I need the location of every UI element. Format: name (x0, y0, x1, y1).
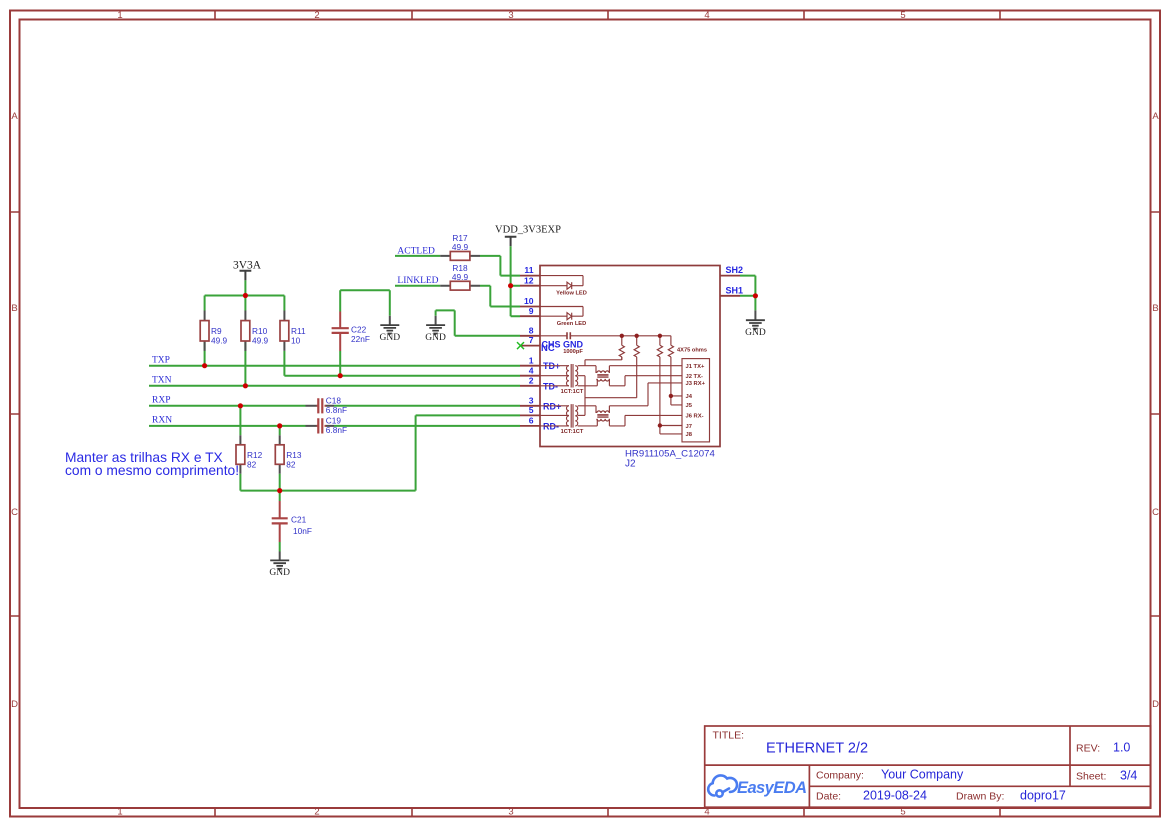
svg-text:C19: C19 (326, 416, 342, 426)
svg-text:J8: J8 (686, 432, 693, 438)
J2 internal wires unused pairs (660, 396, 682, 434)
resistor R17 (440, 233, 480, 260)
svg-text:J2 TX-: J2 TX- (686, 374, 703, 380)
svg-text:R9: R9 (211, 326, 222, 336)
svg-text:HR911105A_C12074: HR911105A_C12074 (625, 449, 715, 460)
J2 pin names (543, 361, 561, 431)
svg-text:2: 2 (529, 375, 534, 385)
svg-text:2: 2 (314, 10, 319, 21)
svg-text:6.8nF: 6.8nF (326, 425, 347, 435)
wire RXP (149, 405, 520, 407)
svg-text:VDD_3V3EXP: VDD_3V3EXP (495, 225, 561, 236)
J2 internal junction dots (620, 334, 674, 428)
svg-text:1: 1 (117, 807, 122, 818)
frame row ticks right (1151, 212, 1161, 616)
resistor R18 (440, 263, 480, 290)
power flag 3V3A (233, 260, 262, 281)
ground GND3 (C21) (269, 552, 290, 579)
capacitor C21 (272, 501, 312, 542)
J2 transformer T1 (540, 364, 578, 388)
svg-text:Yellow LED: Yellow LED (556, 291, 587, 297)
svg-text:Company:: Company: (816, 770, 864, 782)
svg-text:9: 9 (529, 306, 534, 316)
wire R12 legs (239, 406, 241, 491)
svg-text:10nF: 10nF (293, 526, 312, 536)
svg-text:REV:: REV: (1076, 743, 1100, 755)
annotation note text (65, 450, 239, 478)
svg-text:C21: C21 (291, 515, 307, 525)
svg-text:NC: NC (541, 343, 555, 354)
svg-text:4X75 ohms: 4X75 ohms (677, 347, 707, 353)
svg-text:82: 82 (247, 460, 257, 470)
svg-text:49.9: 49.9 (452, 272, 469, 282)
svg-text:5: 5 (529, 405, 534, 415)
svg-text:3: 3 (508, 10, 513, 21)
svg-text:1000pF: 1000pF (563, 349, 583, 355)
frame row letters right (1152, 111, 1159, 710)
ground GND2 (pin8) (425, 316, 446, 343)
frame column ticks bottom (215, 808, 1000, 817)
svg-text:GND: GND (380, 333, 401, 343)
J2 internal capacitor 1000pF (540, 332, 671, 339)
svg-text:com o mesmo comprimento!: com o mesmo comprimento! (65, 463, 239, 478)
svg-text:C: C (11, 507, 18, 518)
J2 termination resistor Rb (634, 336, 639, 398)
svg-text:1CT:1CT: 1CT:1CT (561, 389, 584, 395)
J2 choke L2 (597, 411, 610, 421)
wire VDD to pins 12 and 9 (511, 246, 520, 316)
svg-text:RXN: RXN (152, 416, 172, 426)
resistor R11 (280, 311, 306, 351)
J2 yellow LED (540, 276, 583, 290)
J2 pin numbers (524, 265, 534, 425)
svg-text:82: 82 (286, 460, 296, 470)
resistor R10 (241, 311, 269, 351)
svg-text:J2: J2 (625, 459, 636, 470)
svg-text:10: 10 (524, 296, 534, 306)
svg-text:8: 8 (529, 325, 534, 335)
svg-text:GND: GND (269, 568, 290, 578)
svg-text:7: 7 (529, 335, 534, 345)
svg-text:1: 1 (529, 355, 534, 365)
junction dots (202, 283, 758, 493)
svg-text:4: 4 (704, 10, 709, 21)
J2 internal wires RX side (578, 383, 682, 426)
resistor R12 (236, 435, 263, 474)
svg-text:49.9: 49.9 (252, 336, 269, 346)
J2 left pin stubs (520, 276, 540, 426)
svg-text:3: 3 (529, 395, 534, 405)
capacitor C18 (306, 396, 348, 416)
J2 jack pin labels (686, 364, 706, 438)
frame row ticks left (10, 212, 20, 616)
wire bottom rail (240, 490, 415, 492)
wire ACTLED (395, 255, 440, 257)
wire pin5 line (416, 415, 520, 490)
svg-text:49.9: 49.9 (211, 336, 228, 346)
svg-text:B: B (11, 303, 17, 314)
svg-text:ETHERNET 2/2: ETHERNET 2/2 (766, 741, 868, 757)
J2 choke L1 (597, 371, 610, 381)
svg-text:Green LED: Green LED (557, 321, 586, 327)
J2 pin names SH2 SH1 (726, 265, 744, 295)
wire C21 bottom (279, 542, 281, 552)
svg-text:R11: R11 (291, 326, 306, 336)
svg-text:5: 5 (900, 807, 905, 818)
svg-text:22nF: 22nF (351, 334, 370, 344)
svg-text:SH2: SH2 (726, 265, 744, 275)
J2 transformer T2 (540, 404, 578, 428)
svg-text:3: 3 (508, 807, 513, 818)
svg-text:J6 RX-: J6 RX- (686, 414, 704, 420)
svg-text:2019-08-24: 2019-08-24 (863, 789, 927, 803)
resistor R9 (200, 311, 227, 351)
wire R13 legs (279, 426, 281, 491)
wire pin4 line (284, 351, 520, 376)
svg-text:11: 11 (524, 265, 533, 275)
capacitor C19 (306, 416, 348, 436)
capacitor C22 (332, 312, 370, 352)
svg-text:J4: J4 (686, 394, 693, 400)
svg-text:R13: R13 (286, 450, 302, 460)
svg-text:EasyEDA: EasyEDA (737, 779, 807, 797)
svg-text:A: A (1152, 111, 1159, 122)
svg-text:LINKLED: LINKLED (397, 276, 438, 286)
svg-text:3V3A: 3V3A (233, 260, 262, 272)
wire SH2 SH1 to GND (740, 276, 755, 311)
svg-text:D: D (1152, 699, 1159, 710)
frame column ticks top (215, 11, 1000, 20)
J2 inner jack box (682, 359, 710, 442)
EasyEDA logo cloud (708, 775, 737, 796)
frame column numbers top (117, 10, 905, 21)
svg-text:GND: GND (425, 333, 446, 343)
title block lines (705, 726, 1151, 807)
svg-text:TITLE:: TITLE: (713, 730, 745, 742)
svg-text:J5: J5 (686, 403, 693, 409)
svg-text:12: 12 (524, 275, 534, 285)
svg-text:Drawn By:: Drawn By: (956, 791, 1004, 803)
svg-text:Sheet:: Sheet: (1076, 771, 1106, 783)
svg-text:RXP: RXP (152, 396, 170, 406)
svg-text:dopro17: dopro17 (1020, 789, 1066, 803)
J2 termination resistor Rc (657, 336, 662, 434)
wire GND2 to pin8 (436, 310, 520, 335)
ground GND1 (C22 loop) (380, 316, 401, 343)
no-connect X pin7 (517, 342, 524, 349)
svg-text:49.9: 49.9 (452, 242, 469, 252)
svg-text:R12: R12 (247, 450, 263, 460)
resistor R13 (275, 435, 302, 474)
wire TXN (149, 385, 520, 387)
svg-text:10: 10 (291, 336, 301, 346)
svg-text:1CT:1CT: 1CT:1CT (561, 429, 584, 435)
J2 termination resistor Ra (619, 336, 624, 360)
wire C22 top loop to GND (340, 290, 390, 316)
svg-text:J3 RX+: J3 RX+ (686, 381, 706, 387)
wire C22 bottom (339, 351, 341, 376)
svg-text:6.8nF: 6.8nF (326, 405, 347, 415)
wire R17 to pin11 (480, 256, 520, 276)
svg-text:4: 4 (529, 365, 534, 375)
svg-text:D: D (11, 699, 18, 710)
svg-text:6: 6 (529, 416, 534, 426)
svg-text:3/4: 3/4 (1120, 769, 1137, 783)
wire RXN (149, 425, 520, 427)
J2 green LED (540, 307, 583, 320)
svg-text:4: 4 (704, 807, 709, 818)
svg-text:TXP: TXP (152, 356, 170, 366)
svg-text:Your Company: Your Company (881, 768, 964, 782)
connector J2 body (540, 266, 720, 447)
svg-text:TXN: TXN (152, 376, 172, 386)
svg-text:1.0: 1.0 (1113, 741, 1130, 755)
svg-text:R10: R10 (252, 326, 268, 336)
wire LINKLED (395, 285, 440, 287)
svg-text:ACTLED: ACTLED (397, 246, 435, 256)
wire R9 legs (204, 341, 206, 366)
wire 3V3A rail (205, 280, 285, 310)
wire R18 to pin10 (480, 286, 520, 307)
wire TXP (149, 365, 520, 367)
svg-text:GND: GND (745, 328, 766, 338)
J2 right pin stubs SH2 SH1 (720, 276, 740, 296)
svg-text:1: 1 (117, 10, 122, 21)
ground GND4 (SH) (745, 310, 766, 338)
svg-text:C22: C22 (351, 325, 367, 335)
J2 termination resistor Rd (668, 336, 673, 405)
wire R10 legs (244, 341, 246, 386)
J2 internal wires TX side (578, 357, 682, 416)
svg-text:B: B (1152, 303, 1158, 314)
power flag VDD_3V3EXP (495, 225, 561, 247)
svg-text:SH1: SH1 (726, 285, 744, 295)
svg-text:C18: C18 (326, 396, 342, 406)
svg-text:C: C (1152, 507, 1159, 518)
svg-text:2: 2 (314, 807, 319, 818)
wire C21 top (279, 491, 281, 501)
svg-text:J1 TX+: J1 TX+ (686, 364, 705, 370)
svg-text:5: 5 (900, 10, 905, 21)
svg-text:A: A (11, 111, 18, 122)
frame row letters left (11, 111, 18, 710)
svg-text:J7: J7 (686, 424, 692, 430)
frame column numbers bottom (117, 807, 905, 818)
svg-text:Date:: Date: (816, 791, 841, 803)
